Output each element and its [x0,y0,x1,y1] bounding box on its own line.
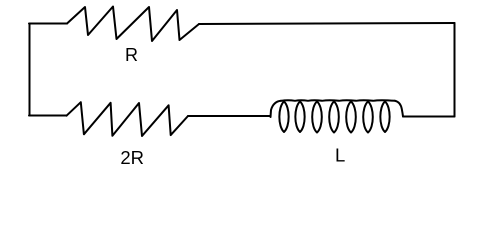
inductor L loop 1 [279,102,288,133]
wire bottom-middle horizontal [188,115,271,117]
wire top-left horizontal [29,23,67,25]
inductor L loop 7 [380,102,389,133]
wire bottom-right horizontal [403,116,455,118]
inductor L loop 5 [346,102,356,133]
svg-text:R: R [125,45,138,65]
wire top-right horizontal [199,23,455,24]
inductor L lead-in step [271,101,282,117]
inductor L lead-out step [395,101,403,117]
svg-text:L: L [335,145,345,166]
resistor 2R [67,102,189,136]
resistor R [67,7,199,42]
inductor L loop 2 [295,102,304,133]
inductor L loop 6 [363,102,373,133]
wire left vertical [29,24,31,116]
svg-text:2R: 2R [120,147,144,168]
inductor L top line [281,99,395,102]
inductor L loop 3 [312,102,322,133]
wire bottom-left horizontal [29,115,67,117]
inductor L loop 4 [329,102,339,133]
wire right vertical [454,23,456,117]
